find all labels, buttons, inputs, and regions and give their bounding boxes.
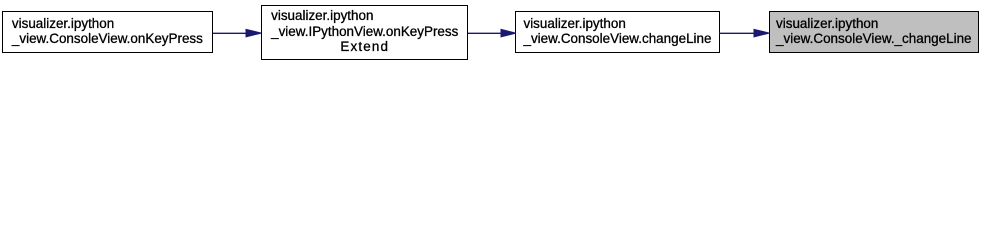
node N2: visualizer.ipython_view.IPythonView.onKeyPressExtend xyxy=(261,5,468,61)
edge N2->N3 xyxy=(468,29,516,37)
node N1: visualizer.ipython_view.ConsoleView.onKeyPress xyxy=(2,11,213,53)
node N4 (current, grey): visualizer.ipython_view.ConsoleView._changeLine xyxy=(769,11,979,53)
edge N3->N4 xyxy=(719,29,769,37)
edge N1->N2 xyxy=(213,29,261,37)
node N3: visualizer.ipython_view.ConsoleView.changeLine xyxy=(515,11,719,53)
